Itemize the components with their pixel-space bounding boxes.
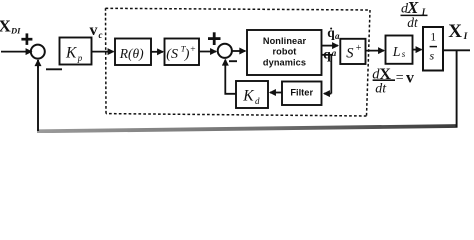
svg-text:s: s — [430, 49, 435, 63]
wire outer feedback right riser — [456, 50, 458, 127]
wire outer feedback left riser — [37, 60, 39, 131]
svg-text:S: S — [346, 46, 354, 62]
svg-text:p: p — [77, 53, 83, 63]
svg-text:K: K — [65, 45, 77, 62]
wire Ls to integrator — [413, 49, 422, 51]
block R(theta) — [115, 39, 151, 66]
wire Kd to summing junction 2 — [225, 61, 236, 94]
svg-text:I: I — [463, 32, 468, 42]
wire Kp to R(theta) — [92, 51, 114, 53]
svg-text:Filter: Filter — [290, 87, 313, 97]
wire summing junction 2 to nonlinear block — [232, 50, 245, 52]
block integrator 1/s — [423, 27, 443, 71]
wire integrator output X_I — [443, 49, 470, 51]
svg-text:a: a — [332, 48, 337, 58]
wire q_a tap down to filter — [322, 55, 332, 94]
wire outer feedback bottom line — [37, 126, 458, 131]
block Kp — [60, 38, 92, 65]
wire S+ to Ls — [366, 50, 385, 52]
block Ls — [386, 36, 413, 64]
svg-text:+: + — [356, 43, 362, 54]
svg-text:Nonlinear: Nonlinear — [263, 36, 307, 46]
svg-text:dt: dt — [407, 15, 419, 30]
plus sign at summing junction 2 — [208, 32, 221, 45]
block Kd — [236, 81, 268, 108]
summing junction 1 — [31, 45, 45, 59]
wire R(theta) to (S^T)+ — [151, 51, 163, 53]
wire input arrow — [1, 51, 32, 53]
svg-text:robot: robot — [273, 47, 297, 57]
svg-text:DI: DI — [10, 25, 21, 35]
svg-text:(S: (S — [166, 47, 178, 62]
summing junction 2 — [218, 44, 232, 58]
svg-text:c: c — [99, 30, 103, 40]
svg-text:): ) — [184, 47, 190, 62]
svg-text:v: v — [406, 70, 414, 87]
svg-text:+: + — [190, 45, 195, 55]
svg-text:v: v — [90, 22, 98, 39]
wire (S^T)+ to summing junction 2 — [199, 51, 216, 53]
block S+ — [340, 39, 365, 64]
wire qdot_a output to S+ — [322, 45, 338, 47]
svg-text:K: K — [242, 87, 254, 104]
minus sign below summing junction 1 — [46, 68, 62, 70]
svg-text:1: 1 — [430, 31, 436, 43]
svg-text:R(θ): R(θ) — [119, 46, 144, 61]
dashed boundary box — [106, 8, 371, 116]
svg-text:s: s — [402, 49, 406, 59]
block (S^T)+ — [165, 39, 200, 66]
wire arrow into summing junction 1 bottom — [37, 60, 39, 68]
svg-text:X: X — [0, 16, 12, 35]
plus sign at summing junction 1 — [21, 33, 32, 45]
block Filter — [282, 82, 322, 106]
wire Filter to Kd — [270, 92, 282, 94]
svg-text:X: X — [448, 21, 462, 42]
svg-text:=: = — [396, 71, 404, 86]
block nonlinear robot dynamics — [247, 30, 322, 75]
minus sign at summing junction 2 — [229, 60, 237, 62]
svg-text:L: L — [392, 45, 401, 60]
svg-text:dt: dt — [375, 81, 387, 96]
svg-text:a: a — [335, 31, 340, 41]
svg-text:d: d — [255, 96, 260, 106]
svg-text:dynamics: dynamics — [263, 58, 306, 68]
